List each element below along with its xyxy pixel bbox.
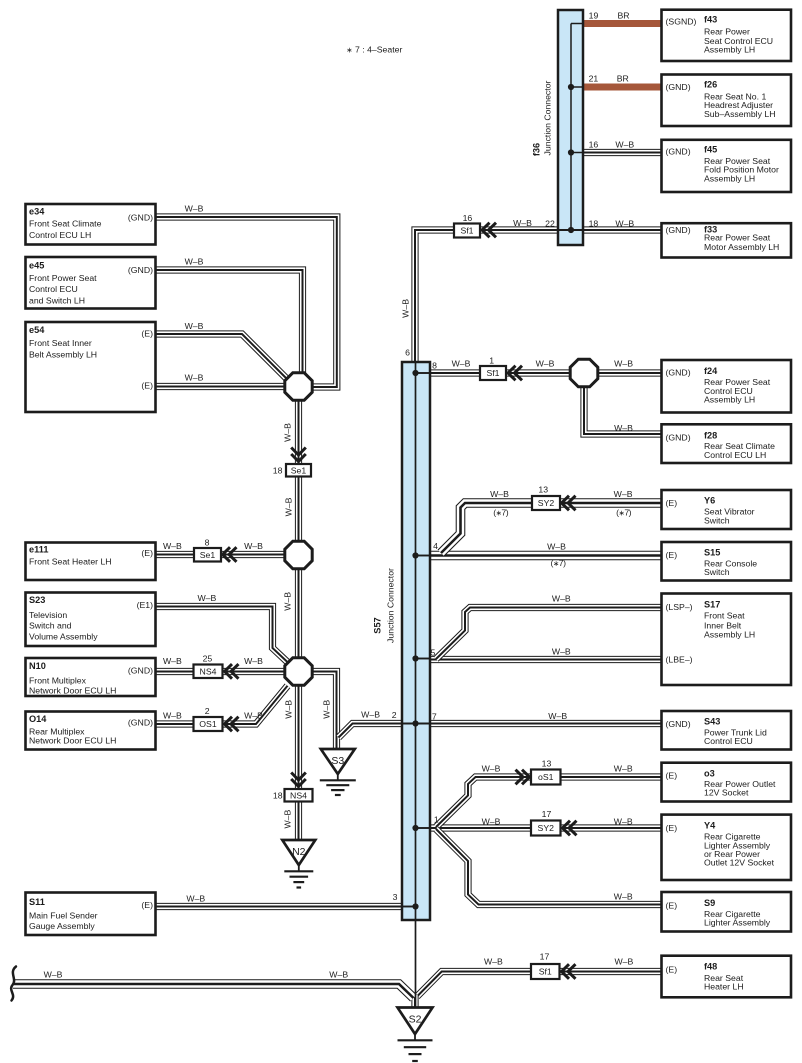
- svg-text:W–B: W–B: [185, 321, 204, 331]
- svg-text:W–B: W–B: [614, 764, 633, 774]
- svg-text:(GND): (GND): [666, 225, 691, 235]
- svg-text:W–B: W–B: [283, 592, 293, 611]
- svg-text:(E): (E): [666, 550, 678, 560]
- svg-text:o3: o3: [704, 769, 715, 779]
- svg-text:17: 17: [542, 809, 552, 819]
- svg-text:1: 1: [434, 815, 439, 825]
- svg-text:Front Seat Inner: Front Seat Inner: [29, 338, 92, 348]
- svg-text:Control ECU LH: Control ECU LH: [704, 450, 766, 460]
- svg-text:and Switch LH: and Switch LH: [29, 295, 85, 305]
- svg-text:(∗7): (∗7): [493, 507, 509, 517]
- svg-text:W–B: W–B: [482, 816, 501, 826]
- svg-text:N10: N10: [29, 661, 46, 671]
- svg-text:6: 6: [405, 347, 410, 357]
- svg-text:NS4: NS4: [290, 790, 307, 800]
- svg-text:S11: S11: [29, 897, 45, 907]
- svg-text:NS4: NS4: [200, 666, 217, 676]
- svg-text:12V Socket: 12V Socket: [704, 788, 749, 798]
- svg-text:1: 1: [489, 356, 494, 366]
- svg-text:S15: S15: [704, 547, 720, 557]
- svg-text:W–B: W–B: [283, 809, 293, 828]
- svg-text:16: 16: [589, 140, 599, 150]
- svg-text:Switch: Switch: [704, 515, 730, 525]
- svg-text:(GND): (GND): [128, 718, 153, 728]
- svg-text:SY2: SY2: [538, 823, 555, 833]
- svg-text:W–B: W–B: [283, 423, 293, 442]
- svg-text:N2: N2: [292, 846, 306, 858]
- svg-text:Control ECU LH: Control ECU LH: [29, 230, 91, 240]
- svg-text:(E): (E): [666, 823, 678, 833]
- svg-text:oS1: oS1: [538, 772, 554, 782]
- svg-text:8: 8: [432, 361, 437, 371]
- svg-text:Sf1: Sf1: [460, 226, 473, 236]
- svg-text:∗ 7 : 4–Seater: ∗ 7 : 4–Seater: [346, 45, 402, 55]
- svg-text:W–B: W–B: [163, 541, 182, 551]
- svg-text:13: 13: [542, 759, 552, 769]
- svg-text:S2: S2: [409, 1013, 422, 1025]
- svg-text:f28: f28: [704, 431, 717, 441]
- svg-text:(E): (E): [666, 965, 678, 975]
- svg-text:W–B: W–B: [513, 218, 532, 228]
- svg-text:S17: S17: [704, 600, 720, 610]
- svg-text:25: 25: [203, 654, 213, 664]
- svg-text:Y4: Y4: [704, 821, 716, 831]
- svg-text:(GND): (GND): [128, 666, 153, 676]
- svg-text:5: 5: [430, 648, 435, 658]
- svg-text:18: 18: [589, 219, 599, 229]
- svg-text:f43: f43: [704, 14, 717, 24]
- svg-text:Television: Television: [29, 610, 67, 620]
- svg-text:Assembly LH: Assembly LH: [704, 629, 755, 639]
- svg-text:Assembly LH: Assembly LH: [704, 45, 755, 55]
- svg-text:W–B: W–B: [614, 816, 633, 826]
- svg-text:(SGND): (SGND): [666, 17, 697, 27]
- svg-text:W–B: W–B: [614, 359, 633, 369]
- svg-text:Y6: Y6: [704, 496, 715, 506]
- svg-text:(E): (E): [141, 329, 153, 339]
- svg-text:W–B: W–B: [490, 489, 509, 499]
- svg-text:Front Multiplex: Front Multiplex: [29, 676, 87, 686]
- svg-text:Front Seat Heater LH: Front Seat Heater LH: [29, 557, 112, 567]
- svg-text:(GND): (GND): [128, 265, 153, 275]
- svg-text:O14: O14: [29, 714, 47, 724]
- svg-text:W–B: W–B: [244, 711, 263, 721]
- svg-text:Front Seat: Front Seat: [704, 611, 745, 621]
- svg-text:W–B: W–B: [283, 700, 293, 719]
- svg-text:S43: S43: [704, 716, 720, 726]
- svg-text:Outlet 12V Socket: Outlet 12V Socket: [704, 858, 775, 868]
- svg-text:W–B: W–B: [536, 359, 555, 369]
- svg-text:S9: S9: [704, 898, 715, 908]
- svg-text:(∗7): (∗7): [551, 558, 567, 568]
- svg-text:Lighter Assembly: Lighter Assembly: [704, 918, 771, 928]
- svg-text:Sub–Assembly LH: Sub–Assembly LH: [704, 109, 775, 119]
- svg-text:S23: S23: [29, 595, 45, 605]
- svg-text:Junction Connector: Junction Connector: [543, 80, 553, 155]
- svg-text:Gauge Assembly: Gauge Assembly: [29, 921, 95, 931]
- svg-text:18: 18: [273, 791, 283, 801]
- svg-text:18: 18: [273, 466, 283, 476]
- svg-text:3: 3: [393, 892, 398, 902]
- svg-text:f26: f26: [704, 79, 717, 89]
- svg-text:(E): (E): [141, 548, 153, 558]
- svg-text:f24: f24: [704, 366, 718, 376]
- svg-text:W–B: W–B: [186, 894, 205, 904]
- svg-text:W–B: W–B: [185, 204, 204, 214]
- svg-text:(E): (E): [666, 771, 678, 781]
- svg-text:(GND): (GND): [128, 212, 153, 222]
- svg-text:W–B: W–B: [484, 957, 503, 967]
- svg-text:Se1: Se1: [200, 550, 216, 560]
- svg-text:(GND): (GND): [666, 82, 691, 92]
- svg-text:(E): (E): [666, 901, 678, 911]
- svg-text:(∗7): (∗7): [616, 507, 632, 517]
- svg-text:(E): (E): [666, 498, 678, 508]
- svg-text:W–B: W–B: [615, 140, 634, 150]
- svg-text:W–B: W–B: [614, 957, 633, 967]
- svg-text:e34: e34: [29, 207, 45, 217]
- svg-text:Motor Assembly LH: Motor Assembly LH: [704, 242, 779, 252]
- svg-text:W–B: W–B: [284, 497, 294, 516]
- svg-text:W–B: W–B: [44, 970, 63, 980]
- svg-text:S57: S57: [373, 617, 383, 633]
- svg-text:e111: e111: [29, 545, 48, 555]
- svg-text:Main Fuel Sender: Main Fuel Sender: [29, 911, 98, 921]
- svg-text:(E): (E): [141, 900, 153, 910]
- svg-text:21: 21: [589, 73, 599, 83]
- svg-text:OS1: OS1: [199, 719, 217, 729]
- svg-text:Network Door ECU LH: Network Door ECU LH: [29, 686, 116, 696]
- svg-text:BR: BR: [617, 73, 629, 83]
- svg-text:Belt Assembly LH: Belt Assembly LH: [29, 350, 97, 360]
- svg-text:(E): (E): [141, 381, 153, 391]
- svg-text:W–B: W–B: [163, 711, 182, 721]
- svg-text:W–B: W–B: [614, 489, 633, 499]
- svg-text:Se1: Se1: [291, 465, 307, 475]
- svg-text:Assembly LH: Assembly LH: [704, 174, 755, 184]
- svg-text:W–B: W–B: [361, 710, 380, 720]
- svg-text:SY2: SY2: [538, 498, 555, 508]
- svg-text:W–B: W–B: [197, 593, 216, 603]
- svg-text:(E1): (E1): [137, 600, 154, 610]
- svg-text:Network Door ECU LH: Network Door ECU LH: [29, 736, 116, 746]
- svg-text:8: 8: [205, 538, 210, 548]
- svg-text:Junction Connector: Junction Connector: [386, 568, 396, 643]
- svg-text:W–B: W–B: [614, 423, 633, 433]
- svg-text:16: 16: [463, 213, 473, 223]
- svg-text:Front Seat Climate: Front Seat Climate: [29, 219, 102, 229]
- svg-text:(GND): (GND): [666, 368, 691, 378]
- svg-text:W–B: W–B: [615, 219, 634, 229]
- svg-text:4: 4: [433, 541, 438, 551]
- svg-text:W–B: W–B: [552, 647, 571, 657]
- svg-text:Front Power Seat: Front Power Seat: [29, 273, 97, 283]
- svg-text:19: 19: [589, 11, 599, 21]
- svg-text:(GND): (GND): [666, 146, 691, 156]
- svg-text:f45: f45: [704, 144, 717, 154]
- svg-text:W–B: W–B: [547, 542, 566, 552]
- svg-text:W–B: W–B: [244, 656, 263, 666]
- svg-text:Sf1: Sf1: [486, 368, 499, 378]
- svg-text:W–B: W–B: [163, 656, 182, 666]
- svg-text:W–B: W–B: [452, 359, 471, 369]
- svg-text:(GND): (GND): [666, 719, 691, 729]
- svg-text:Control ECU: Control ECU: [29, 284, 78, 294]
- svg-text:W–B: W–B: [185, 257, 204, 267]
- svg-text:W–B: W–B: [400, 299, 410, 318]
- svg-text:W–B: W–B: [552, 594, 571, 604]
- svg-text:W–B: W–B: [482, 764, 501, 774]
- svg-text:e54: e54: [29, 325, 45, 335]
- svg-text:f36: f36: [532, 143, 542, 156]
- svg-text:Rear Power Seat: Rear Power Seat: [704, 233, 771, 243]
- svg-text:f48: f48: [704, 962, 717, 972]
- svg-text:Control ECU: Control ECU: [704, 736, 753, 746]
- svg-text:W–B: W–B: [548, 711, 567, 721]
- svg-text:(LSP–): (LSP–): [666, 602, 693, 612]
- svg-text:Sf1: Sf1: [539, 967, 552, 977]
- svg-text:(LBE–): (LBE–): [666, 655, 693, 665]
- svg-text:Heater LH: Heater LH: [704, 981, 744, 991]
- svg-text:BR: BR: [617, 11, 629, 21]
- svg-text:2: 2: [205, 706, 210, 716]
- svg-text:W–B: W–B: [185, 373, 204, 383]
- svg-text:13: 13: [538, 485, 548, 495]
- svg-text:Switch: Switch: [704, 567, 730, 577]
- svg-text:W–B: W–B: [329, 970, 348, 980]
- svg-text:Assembly LH: Assembly LH: [704, 394, 755, 404]
- svg-text:e45: e45: [29, 261, 44, 271]
- svg-text:17: 17: [540, 952, 550, 962]
- svg-text:22: 22: [545, 219, 555, 229]
- svg-text:Switch and: Switch and: [29, 621, 72, 631]
- svg-text:(GND): (GND): [666, 432, 691, 442]
- svg-text:2: 2: [392, 710, 397, 720]
- svg-text:Volume Assembly: Volume Assembly: [29, 631, 98, 641]
- svg-text:W–B: W–B: [321, 700, 331, 719]
- svg-text:W–B: W–B: [614, 892, 633, 902]
- svg-text:S3: S3: [331, 755, 344, 767]
- svg-text:W–B: W–B: [244, 541, 263, 551]
- svg-text:7: 7: [432, 712, 437, 722]
